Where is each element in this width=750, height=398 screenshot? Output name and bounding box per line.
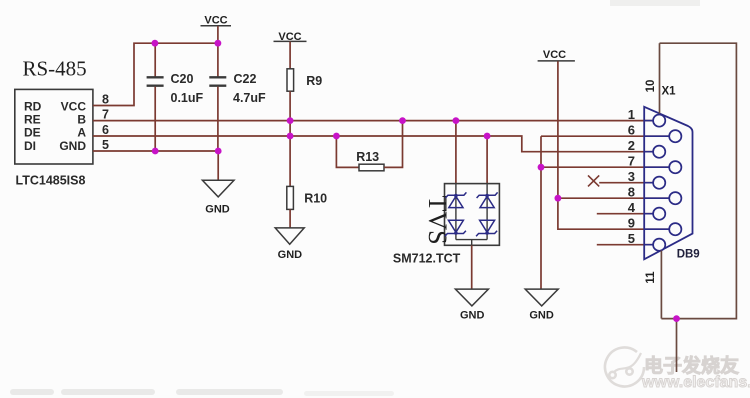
wire B bus (pin7 to DB9 pin1) xyxy=(93,120,653,122)
svg-text:SM712.TCT: SM712.TCT xyxy=(393,251,461,265)
ground below C22 xyxy=(202,151,234,216)
svg-text:DE: DE xyxy=(24,126,41,140)
svg-text:www.elecfans.com: www.elecfans.com xyxy=(641,374,750,391)
DB9 pin 2 circle xyxy=(653,146,665,158)
wire 3 xyxy=(599,182,653,184)
junction dot R10 on A xyxy=(287,133,294,140)
svg-text:8: 8 xyxy=(628,184,635,199)
capacitor C22 xyxy=(209,43,226,151)
TVS array U2 box xyxy=(445,184,500,246)
svg-text:11: 11 xyxy=(645,271,657,284)
svg-text:X1: X1 xyxy=(662,86,677,98)
svg-text:GND: GND xyxy=(529,310,554,322)
wire 5 xyxy=(597,244,653,246)
wire GND bus (pin5) xyxy=(93,150,218,152)
VCC symbol right xyxy=(538,49,575,198)
ground below TVS xyxy=(455,289,488,322)
svg-text:4.7uF: 4.7uF xyxy=(233,91,266,105)
svg-text:8: 8 xyxy=(102,93,109,107)
capacitor C20 xyxy=(147,43,164,151)
svg-text:6: 6 xyxy=(102,123,109,137)
TVS center stem xyxy=(471,240,473,246)
VCC symbol above R9 xyxy=(274,31,307,69)
wire VCC down to wire9 corner xyxy=(558,198,669,229)
ground right xyxy=(525,289,558,322)
svg-text:C22: C22 xyxy=(234,72,257,86)
svg-text:C20: C20 xyxy=(171,72,194,86)
VCC symbol above C22 xyxy=(201,15,232,44)
wire TVS left lead to B bus xyxy=(455,121,457,184)
svg-text:VCC: VCC xyxy=(61,99,87,113)
DB9 pin 5 circle xyxy=(653,239,665,251)
DB9 pin stubs navy xyxy=(644,121,669,245)
diode D4 lower-right zener xyxy=(476,220,497,236)
junction dot C20 bottom xyxy=(152,148,159,155)
junction dot C22 top VCC xyxy=(215,40,222,47)
svg-text:GND: GND xyxy=(205,204,230,216)
junction dot R9 on B xyxy=(287,117,294,124)
junction dot frame bottom xyxy=(673,315,680,322)
op-amp U1 RS-485 transceiver box xyxy=(15,89,93,164)
no-connect X on pin 3 xyxy=(588,175,599,186)
svg-text:10: 10 xyxy=(645,80,657,93)
TVS internal lead left xyxy=(455,184,457,240)
svg-text:RS-485: RS-485 xyxy=(23,57,87,81)
svg-text:VCC: VCC xyxy=(543,49,566,61)
junction dot R13 right on B xyxy=(399,117,406,124)
wire TVS right lead to A bus xyxy=(486,136,488,184)
wire pin8 to VCC rail xyxy=(93,43,218,105)
junction dot C20 top xyxy=(152,40,159,47)
diode D1 upper-left zener xyxy=(445,192,466,207)
resistor R10 xyxy=(287,136,294,228)
TVS internal lead right xyxy=(486,184,488,240)
junction dot GND vert on wire7 xyxy=(538,164,545,171)
svg-text:R10: R10 xyxy=(304,192,327,206)
svg-text:3: 3 xyxy=(628,169,635,184)
svg-text:RD: RD xyxy=(24,99,42,113)
svg-text:R13: R13 xyxy=(356,150,379,164)
DB9 pin 3 circle xyxy=(653,177,665,189)
svg-text:GND: GND xyxy=(59,139,86,153)
diode D3 upper-right zener xyxy=(477,192,498,207)
svg-text:6: 6 xyxy=(628,122,635,137)
svg-text:2: 2 xyxy=(628,138,635,153)
svg-text:R9: R9 xyxy=(306,74,322,88)
svg-text:DB9: DB9 xyxy=(677,249,700,261)
svg-text:5: 5 xyxy=(628,231,635,246)
svg-text:A: A xyxy=(77,126,86,140)
wire TVS to ground xyxy=(471,245,473,289)
faint top edge smudge xyxy=(610,0,700,6)
svg-text:B: B xyxy=(77,113,86,127)
junction dot C22 bottom GND xyxy=(215,148,222,155)
wire pin11 stem xyxy=(660,251,662,319)
watermark logo circle xyxy=(605,347,644,386)
svg-text:9: 9 xyxy=(628,215,635,230)
svg-text:4: 4 xyxy=(628,200,636,215)
svg-text:LTC1485IS8: LTC1485IS8 xyxy=(16,174,86,188)
DB9 pin 9 circle xyxy=(669,223,681,235)
svg-text:7: 7 xyxy=(628,153,635,168)
svg-text:GND: GND xyxy=(278,249,303,261)
svg-text:GND: GND xyxy=(460,310,485,322)
wire bottom stub down xyxy=(676,319,678,372)
DB9 pin 8 circle xyxy=(669,192,681,204)
junction dot VCC vert on wire8 xyxy=(555,195,562,202)
svg-text:VCC: VCC xyxy=(204,15,227,27)
resistor R9 xyxy=(287,69,294,121)
wire 6 from GND vertical xyxy=(541,135,669,137)
wire A bus (pin6, steps down to DB9 pin2) xyxy=(93,136,653,152)
svg-text:7: 7 xyxy=(102,108,109,122)
ground below R10 xyxy=(275,228,304,261)
svg-text:DI: DI xyxy=(24,139,36,153)
wire pin10 stem xyxy=(659,43,661,113)
resistor R13 xyxy=(336,121,402,171)
DB9 pin 4 circle xyxy=(653,208,665,220)
DB9 pin 7 circle xyxy=(669,161,681,173)
DB9 pin 1 circle xyxy=(653,115,665,127)
junction dot R13 left on A xyxy=(333,133,340,140)
wire 8 xyxy=(558,197,669,199)
junction dot TVS left on B xyxy=(453,117,460,124)
TVS internal bottom bus xyxy=(456,239,487,241)
wire GND vertical (pins 6,7) xyxy=(540,136,542,289)
connector X1 DB9 shell xyxy=(644,107,692,259)
diode D2 lower-left zener xyxy=(445,220,466,236)
wire 4 xyxy=(597,213,653,215)
faint bottom edge smudges xyxy=(10,389,394,396)
wire R9 to R10 crossing B and A xyxy=(289,121,291,136)
wire frame top/right/bottom xyxy=(660,43,737,318)
DB9 pin 6 circle xyxy=(669,130,681,142)
junction dot TVS right on A xyxy=(484,133,491,140)
wire 7 xyxy=(541,166,669,168)
svg-text:1: 1 xyxy=(628,107,635,122)
svg-text:5: 5 xyxy=(102,138,109,152)
svg-text:0.1uF: 0.1uF xyxy=(171,91,204,105)
svg-text:RE: RE xyxy=(24,113,41,127)
